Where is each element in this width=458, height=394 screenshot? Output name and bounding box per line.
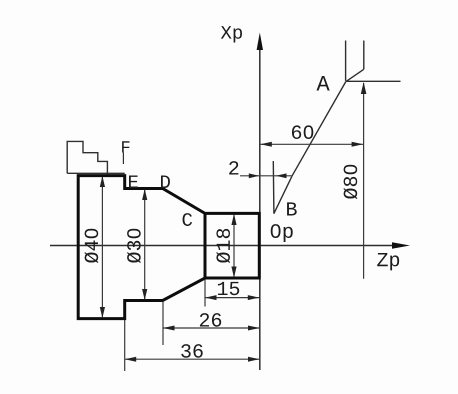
Xp axis arrowhead: [257, 33, 263, 51]
dimension 26 text: [200, 313, 221, 327]
dimension 26 line: [163, 327, 260, 329]
node F label: [122, 141, 129, 152]
node D label: [161, 175, 170, 188]
dimension 2 text: [229, 161, 238, 174]
dimension 15 arrows: [205, 295, 217, 300]
dimension diameter 80 line: [363, 83, 365, 279]
dimension diameter 40 text: [84, 229, 98, 263]
dimension 60 line: [260, 143, 363, 145]
extension line at Z-36: [124, 320, 126, 371]
dimension 60 text: [292, 125, 313, 139]
dimension 60 arrows: [260, 142, 272, 147]
tool symbol at point B: [273, 161, 292, 214]
Xp axis: [259, 44, 261, 370]
dimension 26 arrows: [163, 326, 175, 331]
dimension diameter 80 arrow: [361, 82, 367, 94]
workpiece edge at C: [204, 213, 207, 278]
dimension diameter 40 line: [101, 177, 103, 317]
Zp axis arrowhead: [392, 242, 410, 248]
dimension 2 arrows: [249, 173, 259, 178]
Zp axis label: [377, 253, 399, 270]
dimension diameter 40 arrows: [100, 176, 105, 187]
dimension 36 arrows: [125, 357, 137, 362]
dimension diameter 18 arrows: [231, 214, 236, 225]
Zp axis / centerline: [50, 245, 404, 247]
tool symbol at start point A: [346, 41, 401, 82]
dimension diameter 30 line: [144, 190, 146, 299]
node A label: [317, 76, 330, 90]
dimension diameter 30 arrows: [142, 189, 147, 200]
node C label: [183, 213, 193, 226]
dimension 2 line: [240, 175, 292, 177]
dimension 15 line: [205, 297, 259, 299]
dimension diameter 80 text: [343, 165, 357, 199]
extension line at Z-26: [162, 302, 164, 345]
Xp axis label: [221, 26, 242, 42]
node B label: [287, 202, 297, 215]
dimension diameter 18 text: [216, 229, 230, 263]
dimension diameter 18 line: [233, 215, 235, 278]
dimension 36 text: [181, 344, 202, 358]
dimension 15 text: [218, 282, 239, 295]
dimension diameter 30 text: [127, 229, 141, 263]
dimension 36 line: [125, 358, 260, 360]
chuck jaw outline: [67, 141, 125, 175]
extension line at Z-15: [204, 280, 206, 307]
workpiece outline: [78, 176, 259, 319]
node E label: [129, 175, 138, 188]
wire: rapid traverse path from A to B: [292, 82, 346, 177]
node Op origin label: [271, 224, 293, 242]
node F leader line: [122, 153, 124, 165]
